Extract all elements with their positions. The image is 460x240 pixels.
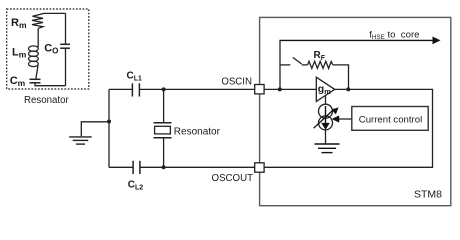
equivalent-circuit dashed box	[7, 9, 89, 89]
pin OSCOUT	[255, 163, 264, 172]
svg-text:STM8: STM8	[414, 189, 442, 201]
wire gm bottom to current source	[325, 96, 327, 105]
ground (current source)	[315, 144, 340, 153]
node feedback junction at OSCIN	[278, 87, 282, 91]
wire RF branch	[280, 64, 290, 66]
wire current source to ground	[325, 130, 327, 144]
wire fHSE to core with arrow	[279, 39, 433, 41]
wire to CL1	[109, 88, 132, 90]
inductor Lm	[29, 46, 39, 67]
svg-text:Resonator: Resonator	[24, 95, 69, 106]
svg-text:Resonator: Resonator	[174, 126, 221, 137]
svg-text:RF: RF	[314, 50, 326, 62]
op-amp gm (inverter)	[316, 77, 334, 101]
wire gm output to right	[264, 89, 432, 167]
wire inductor to capacitor Cm	[36, 66, 38, 80]
node: top wire of equivalent circuit	[44, 12, 66, 14]
resistor RF	[308, 61, 333, 68]
wire junction to crystal	[163, 89, 165, 122]
svg-text:Cm: Cm	[10, 75, 26, 88]
svg-text:OSCOUT: OSCOUT	[212, 173, 254, 184]
current source down arrow	[325, 106, 327, 124]
wire resistor to output	[333, 65, 349, 90]
resistor Rm	[32, 13, 44, 28]
svg-text:Lm: Lm	[12, 47, 27, 60]
wire left vertical between CL1 and CL2	[108, 89, 110, 167]
wire feedback vertical	[279, 40, 281, 89]
node gm output junction	[346, 87, 350, 91]
wire OSCIN to gm input	[264, 88, 316, 90]
node junction ground branch	[107, 120, 111, 124]
crystal resonator	[154, 122, 172, 124]
bottom wire of equivalent circuit	[35, 83, 66, 86]
svg-text:Current control: Current control	[359, 114, 422, 125]
wire switch to resistor	[302, 64, 308, 66]
pin OSCIN	[255, 85, 264, 94]
wire to ground	[81, 122, 109, 137]
current source circles	[319, 104, 333, 118]
capacitor C0	[60, 43, 70, 45]
capacitor CL1	[131, 83, 133, 96]
wire C0 branch top	[65, 13, 67, 44]
control arrow from current control	[339, 118, 352, 120]
wire to CL2	[109, 166, 133, 168]
wire resistor to inductor	[37, 28, 39, 47]
node junction top of resonator	[162, 87, 166, 91]
wire CL1 to OSCIN	[139, 88, 254, 90]
ground (left)	[69, 137, 92, 144]
svg-text:fHSE to core: fHSE to core	[369, 29, 419, 41]
current source variable slash arrow	[314, 109, 335, 128]
capacitor CL2	[132, 161, 134, 174]
node junction bottom of resonator	[162, 165, 166, 169]
capacitor Cm	[30, 78, 41, 80]
svg-text:CL1: CL1	[127, 71, 143, 83]
STM8 box	[260, 17, 451, 205]
svg-text:OSCIN: OSCIN	[221, 76, 252, 87]
switch (RF enable)	[293, 57, 302, 64]
svg-text:Rm: Rm	[11, 17, 27, 30]
wire CL2 to OSCOUT	[140, 166, 255, 168]
wire crystal to bottom junction	[163, 138, 165, 168]
svg-text:CL2: CL2	[128, 180, 144, 192]
wire C0 branch bottom	[65, 48, 67, 85]
svg-text:CO: CO	[44, 43, 58, 56]
current control block	[352, 107, 428, 131]
